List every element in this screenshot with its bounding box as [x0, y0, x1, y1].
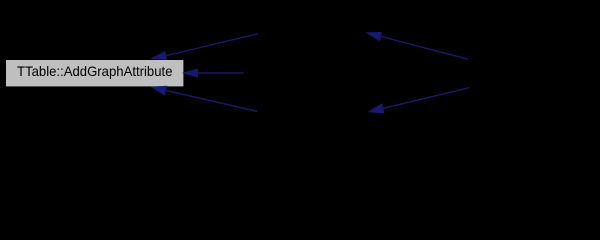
edge arrow: bottom-middle caller -> TTable::AddGraphAttribute — [152, 86, 258, 111]
edge arrow: right caller -> top-middle node — [367, 33, 468, 60]
edge arrow: top-middle caller -> TTable::AddGraphAttribute — [152, 34, 258, 60]
edge arrow: middle caller -> TTable::AddGraphAttribute (horizontal) — [184, 69, 244, 77]
edge arrow: right caller -> bottom-middle node — [369, 88, 470, 113]
node TTable::AddGraphAttribute (highlighted, grey fill) — [6, 60, 183, 86]
svg-text:TTable::AddGraphAttribute: TTable::AddGraphAttribute — [17, 63, 173, 79]
